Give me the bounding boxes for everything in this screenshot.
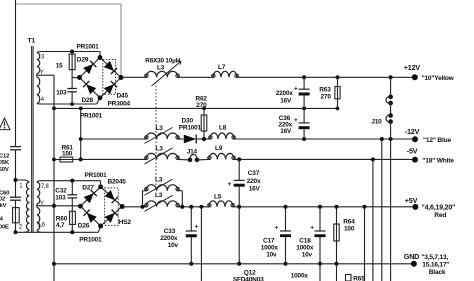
svg-text:+: + [294,117,298,124]
svg-text:103: 103 [55,194,66,201]
svg-text:2200x: 2200x [276,90,294,97]
svg-text:L3: L3 [155,176,163,183]
svg-text:GND: GND [404,252,419,261]
svg-text:SFD40N03: SFD40N03 [233,277,264,281]
svg-text:Y: Y [40,201,44,207]
svg-text:R65: R65 [353,275,365,281]
svg-text:C32: C32 [55,187,67,194]
svg-text:C17: C17 [263,238,275,245]
svg-text:-5V: -5V [407,146,418,155]
svg-text:L9: L9 [215,145,223,152]
svg-text:250V: 250V [0,167,9,173]
svg-text:100E: 100E [0,224,9,230]
svg-text:C33: C33 [164,228,176,235]
svg-text:Red: Red [434,212,446,219]
svg-text:"18" White: "18" White [422,157,454,164]
svg-text:10v: 10v [168,242,179,249]
svg-text:16V: 16V [280,128,292,135]
svg-text:+12V: +12V [404,63,421,72]
svg-text:J14: J14 [187,149,198,156]
svg-text:C18: C18 [299,238,311,245]
svg-text:L3: L3 [156,145,164,152]
svg-text:C60: C60 [0,191,10,197]
svg-text:15: 15 [56,62,63,69]
svg-text:L5: L5 [214,193,222,200]
svg-text:270: 270 [196,102,207,109]
svg-text:"4,6,19,20": "4,6,19,20" [422,205,456,212]
svg-text:D26: D26 [78,222,90,229]
svg-text:2kV: 2kV [0,203,7,209]
svg-text:D27: D27 [82,185,94,192]
svg-text:L3: L3 [156,125,164,132]
svg-text:PR1001: PR1001 [77,43,100,50]
svg-text:+: + [294,85,298,92]
svg-text:+: + [310,225,314,232]
svg-text:Y: Y [40,70,44,76]
svg-text:PR3004: PR3004 [108,100,131,107]
svg-text:Q12: Q12 [244,269,256,276]
svg-text:HS2: HS2 [119,219,132,226]
svg-text:100: 100 [62,150,73,157]
svg-text:10v: 10v [302,251,313,258]
svg-text:+: + [228,181,232,188]
svg-text:220x: 220x [247,178,261,185]
svg-text:L3: L3 [157,64,165,71]
svg-text:J10: J10 [371,118,382,125]
svg-text:PR1001: PR1001 [79,236,102,243]
svg-text:L3: L3 [155,192,163,199]
svg-text:100: 100 [344,225,355,232]
svg-text:"12" Blue: "12" Blue [423,137,451,144]
svg-text:105K: 105K [0,160,10,166]
svg-text:5,6: 5,6 [37,222,46,228]
svg-text:103: 103 [56,89,67,96]
svg-text:C12: C12 [0,154,10,160]
svg-text:2200x: 2200x [160,235,178,242]
svg-text:L7: L7 [218,64,226,71]
svg-text:R6X30 10µH: R6X30 10µH [145,57,180,64]
svg-text:15,16,17": 15,16,17" [422,261,449,268]
svg-text:R64: R64 [343,218,355,225]
svg-text:+5V: +5V [405,196,418,205]
svg-text:4,7: 4,7 [56,222,65,229]
svg-text:-12V: -12V [405,127,420,136]
svg-text:"3,5,7,13,: "3,5,7,13, [421,254,448,261]
svg-text:T1: T1 [28,38,36,45]
svg-text:270: 270 [321,94,332,101]
svg-text:L8: L8 [219,124,227,131]
svg-text:R63: R63 [319,86,331,93]
svg-text:PR1001: PR1001 [80,112,103,119]
svg-text:16V: 16V [280,97,292,104]
svg-text:PR1001: PR1001 [85,172,108,179]
svg-text:PR1001: PR1001 [179,125,202,132]
svg-text:"10"Yellow: "10"Yellow [422,75,455,82]
svg-text:C37: C37 [248,170,260,177]
svg-text:16V: 16V [249,186,261,193]
svg-text:+: + [275,225,279,232]
svg-text:D29: D29 [77,57,89,64]
svg-text:1000x: 1000x [291,272,309,279]
svg-text:D28: D28 [82,97,94,104]
svg-text:D45: D45 [117,93,129,100]
svg-text:10v: 10v [266,251,277,258]
svg-text:7,8: 7,8 [41,184,50,190]
svg-text:Black: Black [429,269,446,276]
svg-text:+: + [195,224,199,231]
svg-text:D30: D30 [182,118,194,125]
svg-text:B2045: B2045 [108,178,127,185]
